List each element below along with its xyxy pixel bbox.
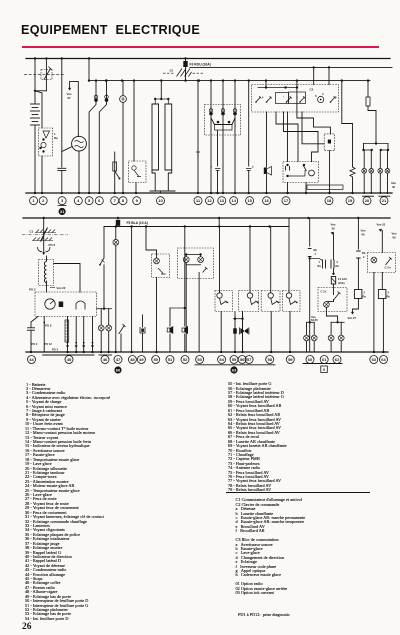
svg-text:61: 61	[322, 357, 327, 362]
voltage regulator 4 (dashed)	[39, 128, 53, 156]
lamp at x=380.3	[379, 150, 381, 168]
wire	[35, 90, 46, 92]
bottom earth bus section 1	[26, 192, 392, 194]
title EQUIPEMENT ELECTRIQUE	[21, 23, 200, 37]
wire radio condenser feed	[61, 59, 63, 168]
staircase wire 1	[276, 112, 298, 162]
svg-text:63: 63	[232, 367, 237, 372]
svg-text:47: 47	[116, 357, 121, 362]
svg-text:6: 6	[98, 198, 101, 203]
svg-text:B: B	[315, 95, 317, 98]
terminal 58	[266, 356, 274, 364]
wire 17 drop	[328, 67, 330, 84]
coil winding	[44, 262, 46, 283]
heated element loops 10	[160, 81, 162, 99]
svg-text:51: 51	[168, 357, 173, 362]
capacitor 3	[58, 167, 66, 169]
svg-text:3: 3	[61, 198, 64, 203]
stepped wire to tester	[297, 81, 331, 134]
accessory feed component	[367, 81, 369, 97]
terminal 3	[58, 197, 66, 205]
PD note	[238, 613, 290, 617]
svg-text:18: 18	[327, 198, 332, 203]
terminal 18	[325, 197, 333, 205]
pickup coil 72	[43, 317, 45, 353]
svg-text:C 2 f: C 2 f	[321, 290, 327, 294]
svg-text:60: 60	[116, 367, 121, 372]
side lamp box (dashed) 57/58	[178, 248, 214, 279]
terminal 47	[114, 356, 122, 364]
svg-text:57: 57	[247, 357, 252, 362]
svg-text:46: 46	[103, 357, 108, 362]
svg-text:45: 45	[67, 357, 72, 362]
svg-text:11: 11	[196, 198, 201, 203]
terminal 64	[380, 356, 388, 364]
terminal 5	[85, 197, 93, 205]
svg-text:2: 2	[337, 260, 339, 264]
lamp bank bus	[364, 143, 389, 145]
C2f switch box (dashed)	[318, 288, 347, 312]
terminal 46	[101, 356, 109, 364]
wire x=76.2	[75, 317, 77, 353]
capacitor 43 branch	[31, 317, 38, 328]
svg-text:60: 60	[308, 357, 313, 362]
terminal 60	[306, 356, 314, 364]
terminal 11	[194, 197, 202, 205]
terminal 53	[196, 356, 204, 364]
svg-text:F3 ROU (16A): F3 ROU (16A)	[190, 62, 211, 66]
thermo-contact 11	[196, 152, 200, 158]
svg-text:8: 8	[122, 198, 125, 203]
svg-text:58: 58	[267, 357, 272, 362]
wires from distributor box into bus	[79, 291, 81, 293]
svg-text:Ra: Ra	[363, 295, 367, 299]
C1 main blade	[41, 228, 48, 242]
plafonnier cluster 56	[234, 318, 244, 320]
connector pair	[94, 95, 98, 99]
fuse F3 ROU (16A)	[185, 59, 187, 62]
winding bar	[65, 320, 69, 342]
lamp at x=387.5	[387, 150, 389, 168]
Ven 27 pigtail	[353, 299, 359, 313]
svg-text:Ven 31: Ven 31	[377, 223, 386, 227]
svg-text:15: 15	[247, 198, 252, 203]
svg-text:2: 2	[42, 198, 45, 203]
wire charge lamp circuit 5	[88, 59, 90, 81]
svg-text:20: 20	[365, 198, 370, 203]
terminal 7	[111, 197, 119, 205]
svg-text:2: 2	[363, 255, 365, 259]
horn pressure switch	[246, 169, 251, 171]
C3 wiper switch	[266, 101, 268, 103]
pair bar G	[364, 149, 372, 151]
lamp at x=371.3	[370, 150, 372, 168]
accessory sub-bus	[89, 80, 370, 82]
terminal 49	[137, 356, 145, 364]
svg-text:F5 BLA (10 A): F5 BLA (10 A)	[127, 221, 148, 225]
terminal 17	[282, 197, 290, 205]
wire to lamp bank	[368, 106, 376, 144]
svg-text:21: 21	[382, 198, 387, 203]
svg-text:54: 54	[219, 357, 224, 362]
terminal 4	[74, 197, 82, 205]
warning bulbs	[209, 109, 213, 113]
bar over 45	[43, 354, 94, 356]
wire drops 11	[197, 81, 199, 193]
terminal 56	[238, 356, 246, 364]
svg-text:9: 9	[323, 368, 325, 372]
terminal 20	[363, 197, 371, 205]
bank risers	[363, 144, 365, 151]
second supply bus (right)	[190, 66, 392, 68]
svg-text:5: 5	[88, 198, 91, 203]
relay coil 2Rb	[378, 290, 386, 299]
bar over 46	[99, 354, 112, 356]
extra exits from door boxes	[234, 312, 236, 353]
terminal 57	[245, 356, 253, 364]
gauge 8	[122, 81, 124, 96]
svg-text:64: 64	[381, 357, 386, 362]
top supply bus	[26, 58, 390, 60]
C3 internal feed bus	[258, 87, 297, 89]
wire x=92.5	[92, 317, 94, 353]
terminal 54	[218, 356, 226, 364]
wires out of box	[185, 263, 187, 353]
svg-text:t: t	[283, 96, 284, 99]
C1 contact blades row 1	[36, 230, 55, 233]
relay box (dashed)	[287, 112, 289, 162]
wire alternator output	[78, 151, 80, 193]
festoon lamp square	[233, 328, 237, 333]
fog lamps 61/62	[333, 322, 335, 334]
svg-text:10: 10	[158, 198, 163, 203]
terminal 8	[119, 197, 127, 205]
svg-text:PO 3: PO 3	[29, 288, 36, 292]
node 31 (inverted)	[59, 208, 66, 215]
Ven 22 label with arrow	[50, 287, 55, 289]
svg-text:2: 2	[388, 291, 390, 295]
svg-text:Ra: Ra	[318, 264, 322, 268]
pair bar D	[381, 149, 388, 151]
terminal 63	[370, 356, 378, 364]
svg-text:PO 3: PO 3	[52, 348, 58, 352]
wire 6	[99, 81, 106, 193]
terminal 59	[286, 356, 294, 364]
bar under terminal 3	[58, 205, 66, 207]
svg-text:13: 13	[220, 198, 225, 203]
C3 switch C	[330, 101, 332, 103]
svg-text:PO 2: PO 2	[32, 342, 38, 346]
wire horn drop 16	[248, 81, 250, 166]
node 63 inverted	[230, 366, 237, 373]
battery 1	[30, 103, 39, 105]
terminal 2	[39, 197, 47, 205]
svg-text:4: 4	[77, 198, 80, 203]
horn 16 symbol	[264, 168, 267, 175]
svg-text:59: 59	[288, 357, 293, 362]
svg-text:PO 6: PO 6	[49, 243, 56, 247]
hazard switch blade	[119, 324, 126, 334]
right feed drop 60	[309, 218, 311, 246]
door switch box 238.7	[249, 227, 251, 293]
twin lamps bar	[97, 308, 112, 310]
terminal 14	[230, 197, 238, 205]
svg-text:(16A): (16A)	[338, 281, 345, 285]
C3 switch t	[286, 101, 288, 103]
svg-text:Ra: Ra	[336, 264, 340, 268]
bar under 60-62	[303, 363, 342, 365]
contact Rb1	[308, 249, 312, 257]
svg-text:1: 1	[315, 252, 317, 256]
terminal 62	[333, 356, 341, 364]
svg-text:PO 9: PO 9	[45, 324, 52, 328]
door switch box 215	[219, 227, 221, 293]
lamp	[108, 309, 110, 325]
gauge assembly	[211, 118, 235, 125]
festoon lamp cones	[240, 328, 244, 334]
pair bars over 20 and 21	[363, 195, 374, 197]
C3 switch housings	[276, 93, 289, 104]
svg-text:P: P	[211, 165, 213, 169]
svg-text:63: 63	[372, 357, 377, 362]
C3 horn switch a	[255, 101, 257, 103]
terminal 50	[152, 356, 160, 364]
wire through 2Ra	[332, 269, 334, 274]
stepped wire into tester left	[302, 112, 324, 144]
svg-text:53: 53	[197, 357, 202, 362]
earth bus section 2	[26, 351, 388, 353]
svg-text:45: 45	[392, 185, 396, 189]
svg-text:1: 1	[319, 260, 321, 264]
instrument cluster (dashed) 5/6/9	[210, 81, 212, 193]
boxed 9	[321, 366, 328, 373]
legend column 2	[228, 382, 287, 493]
svg-text:D: D	[322, 93, 324, 96]
riser	[265, 81, 267, 88]
terminal 10	[157, 197, 165, 205]
node 60 inverted	[114, 366, 121, 373]
svg-text:C3: C3	[310, 88, 314, 92]
collector bar node 10	[150, 190, 175, 192]
terminal 12	[206, 197, 214, 205]
terminal 45	[65, 356, 73, 364]
svg-text:49: 49	[139, 357, 144, 362]
svg-text:50: 50	[153, 357, 158, 362]
svg-text:Ven 22: Ven 22	[57, 286, 66, 290]
voyant tester box T 13	[324, 134, 334, 151]
terminal 19	[346, 197, 354, 205]
accessory sub-bus 2	[104, 226, 289, 228]
svg-text:12: 12	[207, 198, 212, 203]
svg-text:44: 44	[29, 357, 34, 362]
terminal 15	[246, 197, 254, 205]
svg-text:C: C	[335, 96, 337, 99]
red rule	[22, 46, 379, 49]
alternator 4	[72, 136, 87, 151]
lantern circuit drop	[103, 227, 105, 259]
terminal 16	[263, 197, 271, 205]
svg-text:63-65: 63-65	[311, 318, 318, 322]
ignition switch contact	[24, 73, 64, 75]
svg-text:17: 17	[284, 198, 289, 203]
svg-text:Rb: Rb	[387, 295, 391, 299]
terminal 61	[320, 356, 328, 364]
resistor zigzag	[350, 167, 355, 177]
staircase wire 2	[284, 112, 319, 162]
wire x=83.7	[83, 317, 85, 353]
terminal 9	[133, 197, 141, 205]
terminal 6	[95, 197, 103, 205]
svg-text:9: 9	[136, 198, 139, 203]
svg-text:1: 1	[32, 198, 35, 203]
connector merge	[38, 247, 51, 252]
speaker 73 G	[169, 308, 171, 326]
svg-text:31: 31	[60, 209, 65, 214]
legend rule	[226, 492, 370, 493]
terminal 44	[28, 356, 36, 364]
C3 rotary D	[318, 96, 324, 102]
svg-text:C1: C1	[30, 230, 34, 234]
distributor assembly (dashed) 72	[35, 292, 97, 317]
lamp tie bars	[186, 254, 200, 256]
svg-text:16: 16	[264, 198, 269, 203]
wire x=67.5	[67, 317, 69, 353]
fuel sender 8 resistor	[113, 162, 117, 171]
svg-text:a: a	[262, 96, 264, 99]
svg-text:48: 48	[130, 357, 135, 362]
terminal 51	[166, 356, 174, 364]
C2e switch box (dashed)	[368, 253, 396, 273]
sub-bus 3 riser	[218, 218, 220, 227]
relay outline above 17-18	[307, 185, 343, 190]
wire alternator-capacitor	[62, 147, 73, 152]
fog lamp pair bar	[331, 321, 344, 323]
svg-text:Ven 27: Ven 27	[348, 316, 357, 320]
door contact	[100, 258, 104, 265]
wire ignition feed	[43, 218, 45, 252]
wire to regulator	[35, 91, 42, 128]
svg-text:C 2 e: C 2 e	[385, 266, 392, 270]
wire coil to distributor	[46, 281, 48, 292]
etouffoir symbol 70	[142, 315, 144, 327]
wire fuse to sub-bus	[185, 67, 187, 81]
legend column 1	[25, 383, 110, 622]
coil HT output wire	[54, 264, 80, 293]
svg-text:Rb: Rb	[362, 251, 366, 255]
resistor wire 22	[342, 81, 353, 167]
svg-text:52: 52	[183, 357, 188, 362]
door switch box 282.5	[288, 227, 290, 293]
svg-text:C5: C5	[170, 69, 174, 73]
drop Rb2	[357, 218, 359, 249]
oil pressure switch 12 (dashed)	[133, 81, 135, 161]
rear fog pair	[307, 321, 315, 323]
wire	[135, 183, 137, 194]
terminal 52	[181, 356, 189, 364]
wire starter	[41, 156, 43, 193]
svg-text:55: 55	[232, 357, 237, 362]
connector pair	[105, 95, 109, 99]
wires to 63/64	[373, 273, 375, 353]
speaker 73 D	[184, 227, 186, 327]
ignition switch feed wire	[45, 59, 47, 91]
door switch box 261.2	[270, 227, 272, 293]
boot lamp box (dashed) 46	[146, 227, 157, 259]
ignition coil 44 (dashed)	[46, 256, 48, 261]
wire	[61, 171, 63, 193]
switchboard C3 (dashed)	[252, 85, 339, 113]
svg-text:2: 2	[364, 291, 366, 295]
wire	[156, 278, 158, 353]
lamp	[100, 309, 102, 325]
page number 26	[22, 622, 32, 632]
terminal 13	[218, 197, 226, 205]
fuel gauge 7 : sender branch	[114, 152, 116, 193]
svg-text:PO 12: PO 12	[45, 342, 53, 346]
terminal 48	[128, 356, 136, 364]
wire 18 drop	[313, 67, 315, 84]
svg-text:60: 60	[393, 236, 397, 240]
terminal 21	[380, 197, 388, 205]
horn feed	[266, 112, 268, 167]
terminal 55	[230, 356, 238, 364]
section2 supply bus	[23, 217, 390, 219]
lamp at x=364.2	[363, 150, 365, 168]
svg-text:Ra: Ra	[54, 136, 58, 140]
legend column 3 : C-blocks	[236, 498, 306, 595]
bar under 53-58	[195, 364, 275, 366]
svg-text:7: 7	[114, 198, 117, 203]
svg-text:F1 JAU: F1 JAU	[338, 277, 347, 281]
fuse F5 BLA (10A)	[116, 220, 120, 226]
brake pressure switch 14	[217, 131, 219, 167]
svg-text:P: P	[252, 165, 254, 169]
svg-text:62: 62	[335, 357, 340, 362]
courtesy lamp drop 46	[115, 227, 117, 240]
C3 switch b	[299, 101, 301, 103]
C1 contact blades row 2	[33, 238, 52, 241]
svg-text:29: 29	[332, 227, 336, 231]
sender float arm	[115, 171, 120, 179]
Ven 67 pigtail	[70, 81, 79, 136]
branch relay contacts 1Ra / 2Ra	[310, 257, 334, 259]
svg-text:67: 67	[68, 96, 72, 100]
fuse F1 JAU (16A)	[331, 277, 335, 285]
wire tester to earth	[329, 151, 331, 193]
svg-text:Rb: Rb	[314, 248, 318, 252]
C2f lamp	[324, 302, 330, 308]
svg-text:56: 56	[240, 357, 245, 362]
wire battery feed	[34, 59, 36, 104]
svg-text:14: 14	[231, 198, 236, 203]
svg-text:19: 19	[348, 198, 353, 203]
svg-text:60: 60	[362, 233, 366, 237]
jog bar	[170, 307, 185, 309]
wire 48	[131, 227, 133, 353]
terminal 1	[30, 197, 38, 205]
relay coil 2Ra	[354, 290, 362, 299]
